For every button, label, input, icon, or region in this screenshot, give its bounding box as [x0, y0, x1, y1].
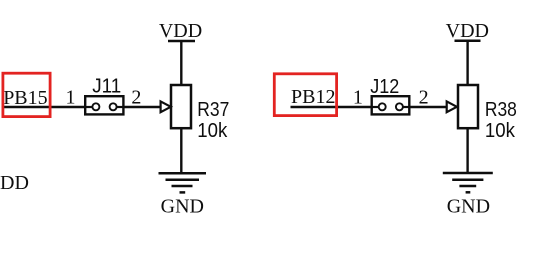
wire PB12 to J12: [291, 106, 373, 108]
jumper J12 pad 2: [396, 103, 403, 110]
power symbol VDD (left): [159, 20, 202, 42]
svg-text:VDD: VDD: [446, 20, 489, 42]
jumper J12 internal stubs: [372, 106, 379, 108]
svg-text:10k: 10k: [485, 120, 516, 142]
jumper J11 pad 1: [92, 103, 99, 110]
svg-text:R38: R38: [485, 99, 517, 121]
svg-text:1: 1: [66, 87, 76, 109]
svg-text:R37: R37: [197, 99, 229, 121]
wire R38 to ground: [466, 128, 468, 173]
svg-text:VDD: VDD: [159, 20, 202, 42]
svg-text:2: 2: [131, 87, 141, 109]
jumper J12 pad 1: [379, 103, 386, 110]
red highlight box around PB12: [274, 74, 336, 116]
svg-text:GND: GND: [447, 196, 490, 218]
jumper J12 body: [372, 96, 410, 114]
svg-text:GND: GND: [161, 196, 204, 218]
arrowhead into R37: [161, 101, 171, 112]
wire J11 to R37: [123, 106, 161, 108]
wire PB15 to J11: [2, 106, 86, 108]
svg-text:DD: DD: [0, 172, 29, 194]
svg-text:PB12: PB12: [291, 86, 335, 108]
svg-text:10k: 10k: [197, 120, 228, 142]
svg-text:PB15: PB15: [3, 87, 47, 109]
red highlight box around PB15: [3, 73, 50, 116]
jumper J11 internal stubs: [85, 106, 92, 108]
wire R37 to ground: [180, 128, 182, 173]
wire VDD to R37: [180, 41, 182, 86]
svg-text:J11: J11: [92, 76, 121, 98]
resistor R37 body: [171, 85, 191, 128]
ground symbol (left): [159, 173, 207, 192]
ground symbol (right): [443, 173, 493, 192]
jumper J11 body: [85, 96, 123, 114]
resistor R38 body: [458, 85, 478, 128]
wire VDD to R38: [466, 41, 468, 86]
wire J12 to R38: [409, 106, 447, 108]
svg-text:J12: J12: [370, 76, 399, 98]
svg-text:1: 1: [353, 87, 363, 109]
svg-text:2: 2: [419, 87, 429, 109]
power symbol VDD (right): [446, 20, 489, 42]
jumper J11 pad 2: [110, 103, 117, 110]
arrowhead into R38: [447, 101, 457, 112]
